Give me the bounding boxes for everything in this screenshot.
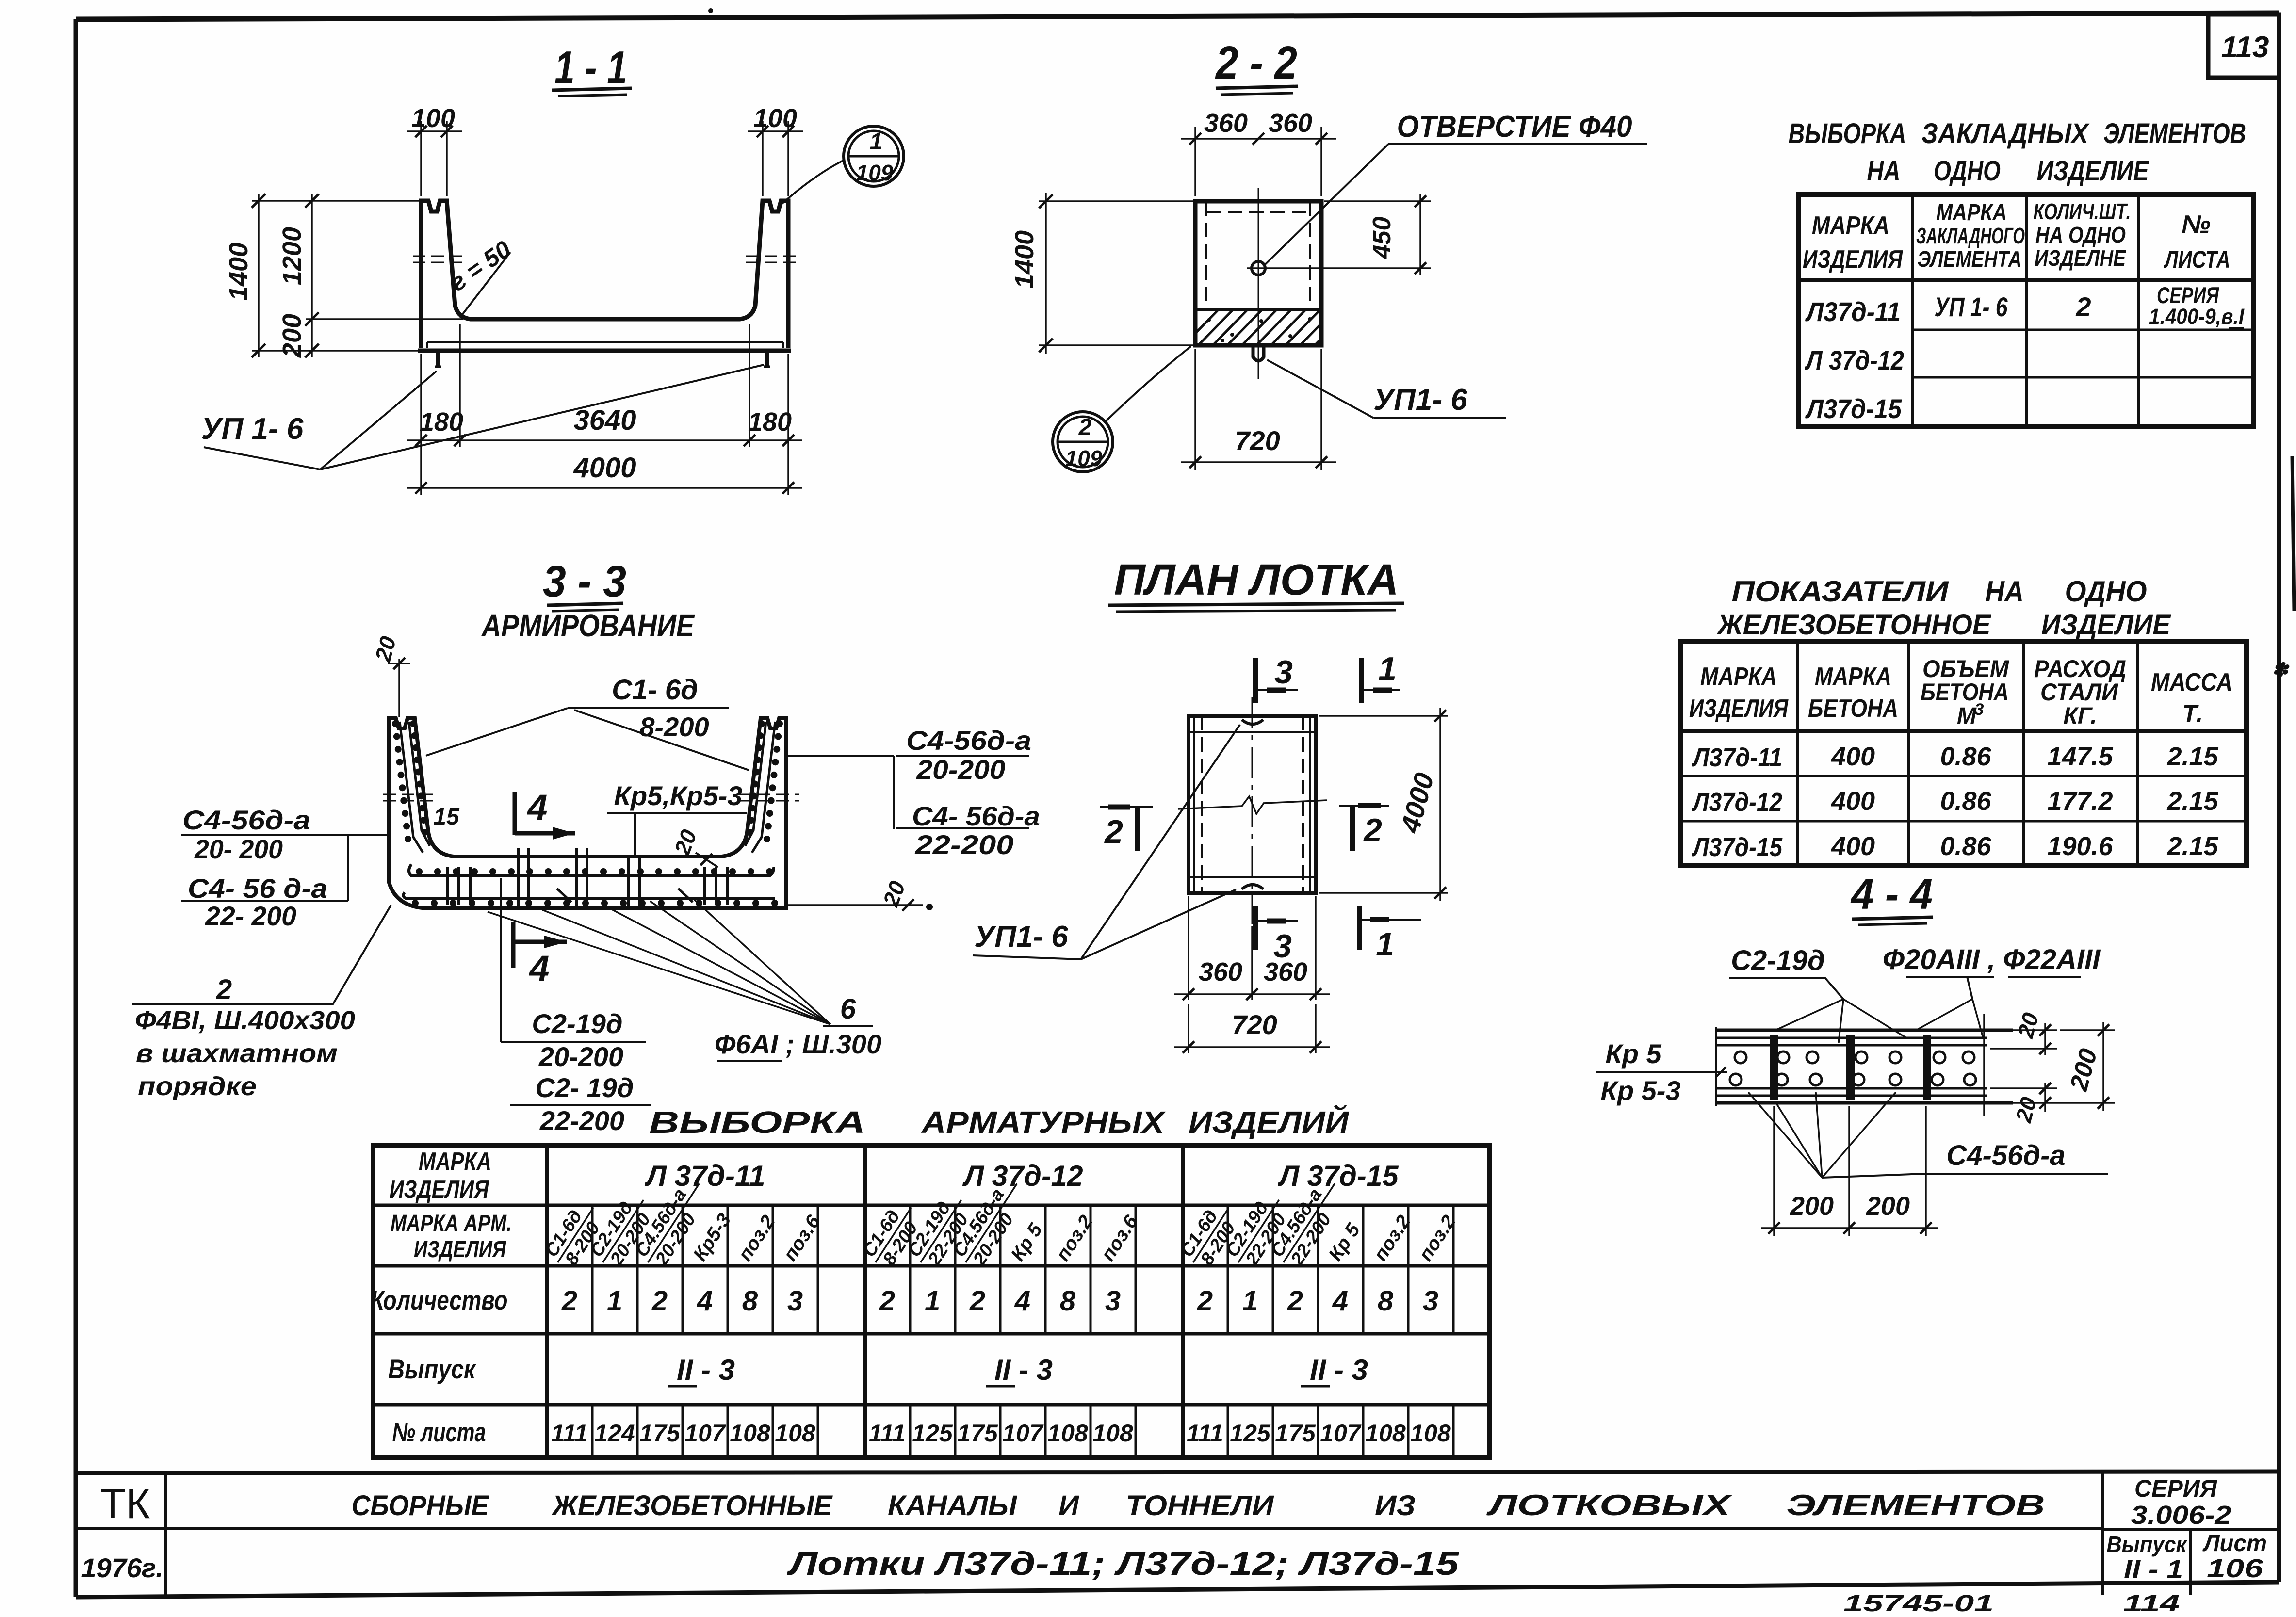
svg-text:1400: 1400 <box>224 243 253 301</box>
svg-text:3.006-2: 3.006-2 <box>2131 1501 2231 1530</box>
plan view title <box>1108 556 1404 612</box>
slope label г=50 <box>445 235 516 318</box>
sheet number box 113 <box>2208 15 2279 78</box>
svg-text:2: 2 <box>969 1285 985 1317</box>
svg-text:КОЛИЧ.ШТ.: КОЛИЧ.ШТ. <box>2034 199 2131 224</box>
svg-text:720: 720 <box>1232 1009 1277 1040</box>
label С2-19д (4-4) <box>1729 945 1843 999</box>
label 2 Ф4ВI Ш.400х300 в шахматном порядке <box>132 905 391 1101</box>
svg-text:ЛИСТА: ЛИСТА <box>2164 246 2230 273</box>
svg-text:2: 2 <box>1197 1285 1213 1317</box>
svg-text:15745-01: 15745-01 <box>1843 1591 1994 1617</box>
main title text <box>352 1489 2045 1521</box>
svg-text:1: 1 <box>607 1285 622 1317</box>
svg-text:II - 3: II - 3 <box>994 1354 1053 1386</box>
svg-text:20- 200: 20- 200 <box>194 834 283 864</box>
svg-text:ИЗДЕЛИЕ: ИЗДЕЛИЕ <box>2037 155 2150 187</box>
svg-text:109: 109 <box>856 160 894 185</box>
table 1 title <box>1789 118 2247 187</box>
table 3 rotated mark labels <box>540 1172 1460 1274</box>
svg-text:КАНАЛЫ: КАНАЛЫ <box>888 1490 1017 1521</box>
svg-text:2: 2 <box>1363 812 1382 849</box>
detail callout circle 2/109 <box>1053 346 1191 472</box>
svg-text:6: 6 <box>840 993 856 1025</box>
svg-text:Л37д-11: Л37д-11 <box>1691 743 1782 772</box>
svg-text:3: 3 <box>1274 654 1293 691</box>
dimension 720 (section 2-2) <box>1181 349 1336 470</box>
svg-text:113: 113 <box>2221 31 2269 64</box>
svg-text:1: 1 <box>870 129 883 155</box>
svg-text:МАРКА АРМ.: МАРКА АРМ. <box>391 1211 512 1236</box>
svg-text:С2-19д: С2-19д <box>1731 945 1825 976</box>
svg-text:ИЗДЕЛИЕ: ИЗДЕЛИЕ <box>2041 609 2171 641</box>
section mark 1 top <box>1362 650 1400 703</box>
svg-text:БЕТОНА: БЕТОНА <box>1921 679 2009 706</box>
svg-text:100: 100 <box>753 104 797 133</box>
svg-text:УП 1- 6: УП 1- 6 <box>201 412 304 446</box>
svg-text:АРМИРОВАНИЕ: АРМИРОВАНИЕ <box>481 608 695 643</box>
section 2-2 mortar hatch band <box>1182 307 1366 347</box>
svg-text:720: 720 <box>1235 425 1280 456</box>
svg-text:360: 360 <box>1204 109 1248 138</box>
svg-text:ВЫБОРКА: ВЫБОРКА <box>649 1105 865 1140</box>
table 3 quantity row <box>561 1285 1438 1317</box>
label Кр5,Кр5-3 <box>607 780 747 857</box>
svg-text:1: 1 <box>1378 650 1397 687</box>
svg-text:2: 2 <box>651 1285 668 1317</box>
dimension 100 top-left <box>407 104 462 196</box>
table 2 data rows <box>1691 742 2218 862</box>
svg-text:3: 3 <box>1975 700 1984 719</box>
svg-text:200: 200 <box>1866 1192 1910 1221</box>
svg-text:175: 175 <box>639 1420 681 1447</box>
dimension 720 (plan) <box>1174 1004 1330 1053</box>
svg-text:С4- 56д-а: С4- 56д-а <box>912 801 1040 831</box>
svg-text:4: 4 <box>1014 1285 1030 1317</box>
vertical dimension chain 1400/1200/200 <box>224 194 463 358</box>
wall mesh C4-56д-а right <box>745 720 783 853</box>
svg-text:ПЛАН ЛОТКА: ПЛАН ЛОТКА <box>1114 556 1399 604</box>
svg-text:107: 107 <box>684 1420 726 1447</box>
bottom dimension 4000 <box>407 452 802 494</box>
svg-text:22-200: 22-200 <box>914 829 1013 860</box>
svg-text:Л37д-12: Л37д-12 <box>1691 788 1782 817</box>
svg-text:С4-56д-а: С4-56д-а <box>906 725 1031 756</box>
svg-text:С4- 56 д-а: С4- 56 д-а <box>188 873 327 904</box>
table 1 data: product marks <box>1805 296 1904 424</box>
label УП1-6 (section 1-1) <box>201 365 764 469</box>
dimension 1400 (section 2-2) <box>1010 193 1195 354</box>
svg-text:ЛОТКОВЫХ: ЛОТКОВЫХ <box>1486 1489 1733 1521</box>
svg-text:108: 108 <box>730 1420 770 1447</box>
footer marks <box>1843 1591 2180 1617</box>
svg-text:180: 180 <box>748 407 792 437</box>
svg-text:ЗАКЛАДНЫХ: ЗАКЛАДНЫХ <box>1921 118 2090 149</box>
table 3 row label column <box>371 1148 512 1447</box>
svg-text:УП1- 6: УП1- 6 <box>974 920 1068 954</box>
section mark 4 lower <box>513 922 567 988</box>
svg-text:БЕТОНА: БЕТОНА <box>1808 695 1898 723</box>
wall level dashed marks 3-3 <box>383 794 799 801</box>
section 3-3 title <box>481 557 695 643</box>
svg-text:порядке: порядке <box>138 1072 257 1101</box>
svg-text:✽: ✽ <box>2272 660 2290 681</box>
svg-text:1: 1 <box>1242 1285 1258 1317</box>
svg-text:И: И <box>1058 1490 1079 1521</box>
svg-text:8: 8 <box>1060 1285 1076 1317</box>
svg-text:Т.: Т. <box>2182 700 2203 727</box>
svg-text:111: 111 <box>869 1420 906 1447</box>
label С2-19д 20-200 / С2-19д 22-200 <box>501 878 651 1136</box>
svg-text:180: 180 <box>420 407 463 437</box>
svg-text:109: 109 <box>1065 446 1103 471</box>
svg-text:107: 107 <box>1002 1420 1044 1447</box>
sheet box <box>2202 1531 2267 1583</box>
svg-text:22-200: 22-200 <box>539 1105 624 1136</box>
svg-text:МАРКА: МАРКА <box>419 1148 491 1176</box>
svg-text:4000: 4000 <box>573 452 636 484</box>
svg-text:Выпуск: Выпуск <box>388 1354 476 1384</box>
svg-text:ЖЕЛЕЗОБЕТОННЫЕ: ЖЕЛЕЗОБЕТОННЫЕ <box>551 1490 833 1521</box>
dimension 360/360 (plan) <box>1174 896 1330 1000</box>
svg-text:360: 360 <box>1269 109 1312 138</box>
svg-text:СЕРИЯ: СЕРИЯ <box>2134 1475 2217 1502</box>
dimension 4000 (plan) <box>1319 708 1448 901</box>
wall level dashed marks 1-1 <box>413 256 798 262</box>
svg-text:108: 108 <box>1047 1420 1088 1447</box>
section mark 4 upper <box>515 787 575 840</box>
dimension 100 top-right <box>748 104 803 196</box>
svg-text:2 - 2: 2 - 2 <box>1215 37 1297 89</box>
svg-text:ИЗДЕЛИЯ: ИЗДЕЛИЯ <box>1689 695 1789 723</box>
svg-text:ТК: ТК <box>100 1481 150 1527</box>
svg-text:4: 4 <box>697 1285 713 1317</box>
svg-text:8: 8 <box>1378 1285 1394 1317</box>
embedded anchor hook left (УП1-6) <box>435 351 441 368</box>
label Отверстие Ф40 <box>1263 110 1647 266</box>
svg-text:1: 1 <box>1376 926 1394 963</box>
svg-text:125: 125 <box>1230 1420 1271 1447</box>
label С4-56д-а (4-4) <box>1748 1092 2108 1178</box>
dimension 20 top-left (3-3) <box>370 633 410 717</box>
section mark 3 bottom <box>1255 906 1298 965</box>
svg-text:Лист: Лист <box>2202 1531 2267 1556</box>
label С4-56д-а 20-200 left <box>181 805 391 901</box>
table 1 grid <box>1798 194 2253 427</box>
svg-text:8: 8 <box>742 1285 758 1317</box>
floor mesh bars C2-19д <box>403 864 778 906</box>
channel cross-section 1-1 outline <box>418 201 791 351</box>
svg-text:190.6: 190.6 <box>2047 832 2113 861</box>
svg-text:Л37д-15: Л37д-15 <box>1805 393 1902 424</box>
svg-text:200: 200 <box>1790 1192 1834 1221</box>
dimension 200/200 bottom (4-4) <box>1761 1106 1938 1236</box>
svg-text:ВЫБОРКА: ВЫБОРКА <box>1789 118 1906 149</box>
svg-text:Л 37д-12: Л 37д-12 <box>1805 345 1904 375</box>
plan centreline <box>1252 697 1253 924</box>
svg-text:0.86: 0.86 <box>1940 787 1991 816</box>
svg-text:Ф6АI ; Ш.300: Ф6АI ; Ш.300 <box>715 1029 881 1059</box>
svg-text:2: 2 <box>879 1285 895 1317</box>
svg-text:МАРКА: МАРКА <box>1936 200 2007 226</box>
svg-text:2: 2 <box>561 1285 577 1317</box>
svg-text:КГ.: КГ. <box>2063 703 2097 729</box>
svg-text:124: 124 <box>594 1420 635 1447</box>
svg-text:108: 108 <box>1410 1420 1451 1447</box>
svg-text:М: М <box>1957 703 1977 729</box>
label 6 Ф6АI Ш.300 <box>488 898 881 1061</box>
svg-text:4: 4 <box>1332 1285 1348 1317</box>
label С1-6д / 8-200 <box>426 674 749 770</box>
table 2 title <box>1716 575 2172 641</box>
dimension 200 right (4-4) <box>1990 1022 2115 1111</box>
svg-text:ИЗДЕЛНЕ: ИЗДЕЛНЕ <box>2035 245 2126 271</box>
section 2-2 body outline <box>1195 201 1321 345</box>
svg-text:177.2: 177.2 <box>2047 787 2113 816</box>
table 3 sheet number row <box>551 1420 1451 1447</box>
svg-text:2: 2 <box>1104 813 1123 850</box>
svg-text:400: 400 <box>1831 742 1875 771</box>
svg-text:Л 37д-15: Л 37д-15 <box>1278 1160 1400 1192</box>
svg-text:3 - 3: 3 - 3 <box>543 557 626 606</box>
svg-text:Кр 5-3: Кр 5-3 <box>1600 1075 1680 1106</box>
svg-text:400: 400 <box>1831 787 1875 816</box>
svg-text:УП1- 6: УП1- 6 <box>1373 383 1467 417</box>
svg-text:II - 3: II - 3 <box>1310 1354 1368 1386</box>
section mark 3 top <box>1255 654 1298 703</box>
dimension 20 at floor right (3-3) <box>669 826 718 867</box>
svg-text:111: 111 <box>1187 1420 1223 1447</box>
section mark 1 bottom <box>1359 906 1421 963</box>
label Кр5 / Кр5-3 <box>1596 1038 1727 1106</box>
svg-text:ЭЛЕМЕНТОВ: ЭЛЕМЕНТОВ <box>1787 1489 2045 1521</box>
svg-text:2.15: 2.15 <box>2166 832 2218 861</box>
anchor loop УП1-6 below section 2-2 <box>1253 346 1264 361</box>
svg-text:Ф20АIII , Ф22АIII: Ф20АIII , Ф22АIII <box>1883 944 2101 975</box>
section 2-2 title <box>1215 37 1298 95</box>
svg-text:Кр 5: Кр 5 <box>1605 1038 1661 1069</box>
svg-text:360: 360 <box>1264 957 1307 986</box>
hole Ф40 symbol <box>1247 261 1270 275</box>
table 2 grid <box>1681 642 2247 866</box>
svg-text:Л 37д-12: Л 37д-12 <box>962 1160 1083 1192</box>
svg-text:400: 400 <box>1831 832 1875 861</box>
svg-text:360: 360 <box>1199 957 1242 986</box>
svg-text:200: 200 <box>277 314 307 358</box>
svg-text:СТАЛИ: СТАЛИ <box>2040 679 2118 706</box>
svg-text:3640: 3640 <box>573 404 636 436</box>
svg-text:Кр5,Кр5-3: Кр5,Кр5-3 <box>614 780 743 811</box>
svg-text:НА: НА <box>1867 155 1901 187</box>
svg-text:147.5: 147.5 <box>2047 742 2113 771</box>
dimension 360/360 (section 2-2) <box>1181 109 1336 196</box>
plan break line <box>1178 796 1327 814</box>
svg-text:№: № <box>2182 210 2211 239</box>
section mark 2 left <box>1100 807 1153 851</box>
detail callout circle 1/109 <box>782 126 904 204</box>
dimension 20 lower right (4-4) <box>1990 1083 2057 1125</box>
svg-text:107: 107 <box>1320 1420 1362 1447</box>
svg-text:15: 15 <box>433 804 460 830</box>
issue box <box>2107 1532 2188 1584</box>
bottom dimension 180/3640/180 <box>407 324 802 495</box>
svg-text:3: 3 <box>787 1285 803 1317</box>
svg-text:100: 100 <box>411 104 455 133</box>
series box <box>2131 1475 2231 1530</box>
svg-text:II - 1: II - 1 <box>2124 1555 2183 1584</box>
svg-text:ЭЛЕМЕНТОВ: ЭЛЕМЕНТОВ <box>2103 118 2246 149</box>
svg-text:ИЗДЕЛИЯ: ИЗДЕЛИЯ <box>390 1176 489 1204</box>
svg-text:МАРКА: МАРКА <box>1700 663 1777 691</box>
svg-text:АРМАТУРНЫХ: АРМАТУРНЫХ <box>921 1105 1166 1140</box>
title block grid <box>76 1471 2279 1595</box>
svg-text:ОТВЕРСТИЕ Ф40: ОТВЕРСТИЕ Ф40 <box>1397 110 1632 144</box>
svg-text:ОДНО: ОДНО <box>2065 575 2147 608</box>
svg-text:1976г.: 1976г. <box>81 1552 163 1583</box>
svg-text:3: 3 <box>1105 1285 1121 1317</box>
svg-text:0.86: 0.86 <box>1940 742 1991 771</box>
svg-text:ОДНО: ОДНО <box>1934 155 2001 187</box>
stirrup frames Кр5 in floor <box>447 848 728 906</box>
svg-text:2: 2 <box>1287 1285 1303 1317</box>
plan outline <box>1189 716 1316 893</box>
svg-text:Выпуск: Выпуск <box>2107 1532 2188 1557</box>
svg-text:УП 1- 6: УП 1- 6 <box>1935 291 2008 322</box>
svg-text:НА ОДНО: НА ОДНО <box>2035 222 2126 247</box>
svg-text:Лотки Л37д-11; Л37д-12; Л3: Лотки Л37д-11; Л37д-12; Л37д-15 <box>786 1545 1460 1582</box>
svg-text:114: 114 <box>2123 1591 2180 1617</box>
svg-text:Количество: Количество <box>371 1285 508 1315</box>
svg-text:175: 175 <box>957 1420 998 1447</box>
svg-text:МАССА: МАССА <box>2151 668 2232 696</box>
table 3 group headers <box>644 1160 1399 1192</box>
svg-text:2.15: 2.15 <box>2166 787 2218 816</box>
svg-text:450: 450 <box>1368 217 1396 259</box>
svg-text:4 - 4: 4 - 4 <box>1850 870 1933 918</box>
svg-text:2: 2 <box>1078 415 1092 440</box>
svg-text:НА: НА <box>1985 575 2024 608</box>
svg-text:111: 111 <box>551 1420 588 1447</box>
svg-text:СБОРНЫЕ: СБОРНЫЕ <box>352 1490 490 1521</box>
svg-text:4: 4 <box>526 787 547 827</box>
svg-text:МАРКА: МАРКА <box>1812 211 1889 240</box>
table 1 data row УП1-6 <box>1935 282 2245 329</box>
svg-text:108: 108 <box>1365 1420 1406 1447</box>
svg-text:108: 108 <box>1092 1420 1133 1447</box>
svg-text:ЭЛЕМЕНТА: ЭЛЕМЕНТА <box>1918 246 2022 272</box>
svg-text:Л 37д-11: Л 37д-11 <box>644 1160 765 1192</box>
svg-text:1: 1 <box>925 1285 940 1317</box>
label Ф20АIII, Ф22АIII <box>1883 944 2101 999</box>
svg-text:ИЗДЕЛИЯ: ИЗДЕЛИЯ <box>414 1237 506 1262</box>
svg-text:2.15: 2.15 <box>2166 742 2218 771</box>
svg-text:20-200: 20-200 <box>538 1041 623 1072</box>
svg-text:1400: 1400 <box>1010 230 1039 289</box>
svg-text:II - 3: II - 3 <box>677 1354 735 1386</box>
svg-text:4: 4 <box>528 948 549 988</box>
svg-text:С2-19д: С2-19д <box>532 1008 622 1039</box>
svg-text:ИЗДЕЛИЯ: ИЗДЕЛИЯ <box>1803 245 1903 274</box>
svg-text:106: 106 <box>2207 1554 2263 1583</box>
bar end circles lower row (4-4) <box>1730 1074 1976 1085</box>
table 1 header texts <box>1803 199 2231 274</box>
svg-text:0.86: 0.86 <box>1940 832 1991 861</box>
svg-text:ИЗДЕЛИЙ: ИЗДЕЛИЙ <box>1189 1104 1350 1140</box>
svg-text:Л37д-11: Л37д-11 <box>1805 296 1901 327</box>
dimension 20 upper right (4-4) <box>1990 1010 2057 1055</box>
svg-text:№ листа: № листа <box>392 1417 486 1447</box>
svg-text:ПОКАЗАТЕЛИ: ПОКАЗАТЕЛИ <box>1732 575 1950 608</box>
stirrup plates (4-4) <box>1770 1035 1931 1100</box>
dimension 450 (section 2-2) <box>1270 194 1431 275</box>
svg-text:3: 3 <box>1423 1285 1438 1317</box>
section 1-1 title <box>552 42 632 96</box>
leader fan to top bars (4-4) <box>1775 999 1983 1043</box>
channel section 3-3 outline <box>389 718 786 908</box>
section mark 2 right <box>1339 806 1389 851</box>
table 3 grid <box>373 1145 1490 1457</box>
svg-text:1.400-9,в.I: 1.400-9,в.I <box>2149 304 2245 329</box>
svg-text:125: 125 <box>912 1420 953 1447</box>
table 3 issue row II-3 <box>668 1354 1368 1386</box>
slab section 4-4 <box>1716 1014 2013 1116</box>
svg-text:Ф4ВI, Ш.400х300: Ф4ВI, Ш.400х300 <box>135 1006 355 1035</box>
svg-text:Л37д-15: Л37д-15 <box>1691 833 1782 862</box>
svg-text:С1- 6д: С1- 6д <box>612 674 698 706</box>
bar end circles upper row (4-4) <box>1735 1051 1974 1063</box>
label УП1-6 (plan) <box>973 725 1240 959</box>
svg-text:ТОННЕЛИ: ТОННЕЛИ <box>1126 1490 1274 1521</box>
svg-text:22- 200: 22- 200 <box>205 901 296 931</box>
svg-text:С4-56д-а: С4-56д-а <box>1946 1140 2065 1171</box>
label С4-56д-а 22-200 left <box>181 873 348 931</box>
svg-text:С4-56д-а: С4-56д-а <box>182 805 310 835</box>
svg-text:175: 175 <box>1275 1420 1316 1447</box>
svg-text:1200: 1200 <box>277 227 307 285</box>
svg-text:2: 2 <box>216 974 232 1005</box>
label УП1-6 (section 2-2) <box>1267 360 1506 418</box>
embedded anchor hook right (УП1-6) <box>764 351 770 368</box>
plan anchor loops УП1-6 <box>1242 720 1263 889</box>
svg-text:8-200: 8-200 <box>639 711 709 742</box>
svg-text:МАРКА: МАРКА <box>1815 663 1891 691</box>
svg-text:С2- 19д: С2- 19д <box>536 1072 634 1103</box>
svg-text:20-200: 20-200 <box>916 754 1005 785</box>
svg-text:ЗАКЛАДНОГО: ЗАКЛАДНОГО <box>1916 223 2025 248</box>
section 4-4 title <box>1850 870 1933 925</box>
svg-text:ИЗ: ИЗ <box>1375 1490 1416 1521</box>
wall mesh C4-56д-а left <box>392 720 430 853</box>
label С4-56д-а 20-200 right <box>785 725 1031 829</box>
svg-text:2: 2 <box>2075 291 2091 322</box>
table 2 header texts <box>1689 655 2232 729</box>
svg-text:108: 108 <box>775 1420 815 1447</box>
section 2-2 centreline <box>1258 188 1259 379</box>
svg-text:ЖЕЛЕЗОБЕТОННОЕ: ЖЕЛЕЗОБЕТОННОЕ <box>1716 609 1992 641</box>
label С4-56д-а 22-200 right <box>896 801 1040 860</box>
svg-text:в шахматном: в шахматном <box>136 1039 338 1068</box>
dimension 20 bottom-right (3-3) <box>788 877 933 911</box>
svg-text:1 - 1: 1 - 1 <box>554 42 627 94</box>
